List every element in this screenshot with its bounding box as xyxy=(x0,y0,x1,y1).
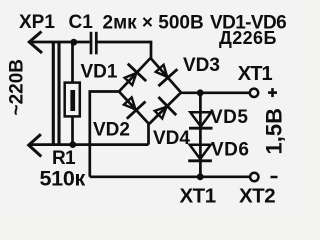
wire top (XP1 to C1) xyxy=(29,41,89,44)
capacitor C1 xyxy=(91,32,96,55)
minus sign xyxy=(271,176,278,179)
wire R1 top lead xyxy=(71,42,74,82)
diode VD3 (bridge upper-right arm) xyxy=(151,58,182,93)
svg-text:Д226Б: Д226Б xyxy=(219,28,277,48)
svg-text:2мк × 500В: 2мк × 500В xyxy=(103,13,204,34)
plug XP1 pin 1 arrow xyxy=(29,32,42,54)
diode VD5 xyxy=(189,112,213,128)
svg-text:ХР1: ХР1 xyxy=(19,12,55,33)
plus sign xyxy=(268,88,277,97)
terminal XT1 circle xyxy=(250,89,258,97)
wire bridge right vertex to XT1 xyxy=(181,91,250,94)
terminal XT2 circle xyxy=(250,173,258,181)
svg-text:1,5В: 1,5В xyxy=(262,108,287,154)
svg-text:ХТ1: ХТ1 xyxy=(180,185,216,208)
svg-text:VD5: VD5 xyxy=(210,107,248,128)
wire bridge bottom stub xyxy=(147,124,150,145)
wire bridge left vertex to minus rail xyxy=(90,92,119,177)
wire vertical pair left 1 xyxy=(52,42,55,145)
diode VD4 (bridge lower-right arm) xyxy=(149,93,181,125)
node R1 bottom junction dot xyxy=(69,141,76,148)
wire bottom minus rail xyxy=(90,175,250,178)
diode VD2 (bridge lower-left arm) xyxy=(119,92,149,125)
svg-text:VD1: VD1 xyxy=(81,62,118,83)
svg-text:510к: 510к xyxy=(40,167,86,191)
node A (C1 / R1 junction dot) xyxy=(70,39,77,46)
diode VD6 xyxy=(188,145,212,161)
node plus rail junction dot xyxy=(197,89,204,96)
svg-text:ХТ2: ХТ2 xyxy=(239,185,275,208)
diode VD1 (bridge upper-left arm) xyxy=(119,58,151,92)
svg-text:VD3: VD3 xyxy=(183,55,220,76)
wire C1 to bridge top xyxy=(98,42,152,59)
wire VD5/VD6 branch xyxy=(199,93,202,177)
wire vertical pair left 2 xyxy=(57,42,60,145)
wire R1 bottom lead xyxy=(71,116,74,144)
svg-text:VD4: VD4 xyxy=(153,128,190,149)
svg-text:~220В: ~220В xyxy=(7,59,28,116)
svg-text:VD2: VD2 xyxy=(93,120,130,141)
plug XP1 pin 2 arrow xyxy=(29,134,42,156)
svg-text:ХТ1: ХТ1 xyxy=(238,63,273,85)
svg-text:С1: С1 xyxy=(69,12,94,33)
resistor R1 xyxy=(65,83,80,117)
svg-text:VD6: VD6 xyxy=(211,140,249,161)
wire bottom (XP1 pin2 to bridge bottom) xyxy=(29,143,149,146)
node minus rail junction dot xyxy=(197,173,204,180)
